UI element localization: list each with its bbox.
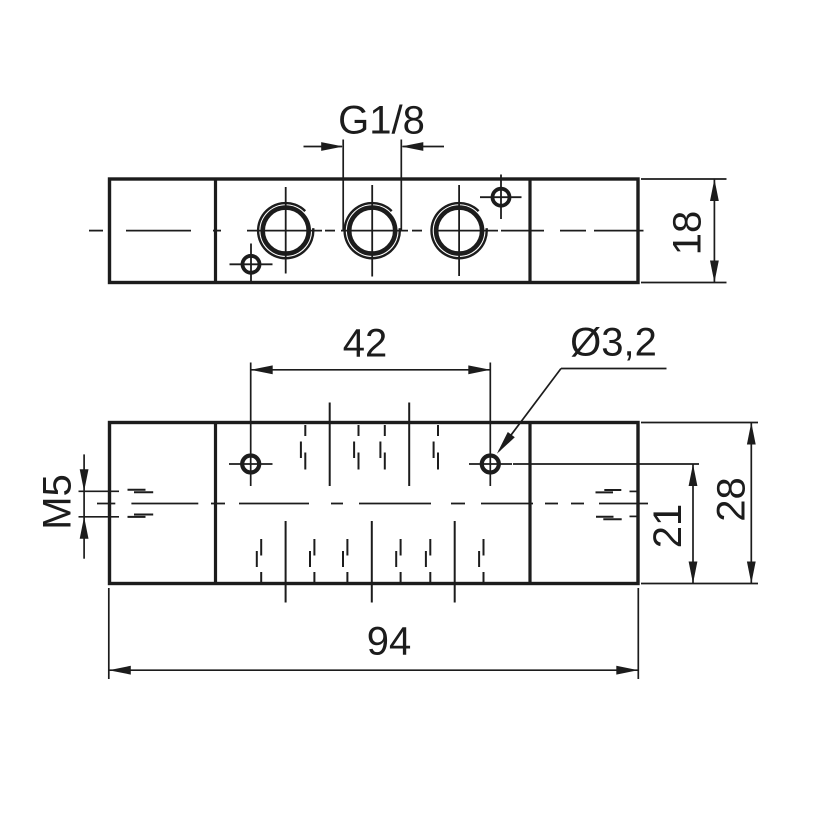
M5 port right thread dashes — [596, 490, 622, 519]
M5 port left thread dashes — [128, 490, 154, 517]
svg-text:42: 42 — [343, 322, 388, 366]
hidden hole group bottom 1 — [257, 539, 261, 583]
hidden hole group bottom 3 — [343, 539, 347, 583]
left section divider — [214, 179, 217, 283]
dimension 94 — [109, 588, 639, 679]
dimension 28 — [641, 423, 758, 584]
hidden hole group bottom 6 — [479, 539, 483, 583]
dimension 42 — [251, 369, 491, 371]
hidden hole group bottom 4 — [396, 539, 400, 583]
hidden hole group top 3 — [380, 425, 384, 470]
dimension G1/8 — [304, 140, 445, 232]
hidden hole group bottom 5 — [426, 539, 430, 583]
dimension 18 — [641, 179, 727, 283]
svg-text:18: 18 — [666, 211, 710, 256]
hidden hole group top 4 — [434, 425, 438, 470]
horizontal centerline top view — [89, 230, 644, 232]
port G1/8 hole U1 (left) — [258, 187, 313, 274]
port G1/8 hole U3 (right) — [432, 185, 487, 276]
svg-text:28: 28 — [710, 477, 754, 522]
mounting hole top view lower-left — [230, 244, 273, 283]
body outline front view — [110, 423, 639, 584]
hidden hole group top 1 — [301, 425, 305, 470]
bottom face port axis 1 — [285, 521, 287, 603]
svg-text:21: 21 — [646, 504, 690, 549]
M5 port right wall lines — [630, 491, 638, 516]
mounting hole front view left — [229, 363, 273, 487]
left section divider front view — [214, 423, 217, 584]
M5 port left wall lines — [79, 491, 120, 517]
svg-text:Ø3,2: Ø3,2 — [570, 321, 657, 365]
dimension M5 — [83, 454, 85, 558]
top face port axis A (left) — [329, 403, 331, 487]
hidden hole group top 2 — [354, 425, 358, 470]
dimension 21 — [513, 464, 699, 584]
svg-text:G1/8: G1/8 — [338, 99, 425, 143]
top face port axis B (right) — [408, 403, 410, 487]
right section divider front view — [528, 423, 531, 584]
svg-text:94: 94 — [367, 620, 412, 664]
leader diameter 3,2 — [499, 369, 667, 452]
port G1/8 hole U2 (middle) — [345, 185, 400, 277]
mounting hole front view right — [469, 363, 512, 487]
mounting hole top view upper-right — [480, 175, 522, 220]
right section divider — [528, 179, 531, 283]
svg-text:M5: M5 — [36, 474, 80, 530]
hidden hole group bottom 2 — [310, 539, 314, 583]
horizontal centerline front view — [97, 503, 648, 505]
body outline top view — [110, 179, 639, 283]
bottom face port axis 2 — [371, 521, 373, 603]
bottom face port axis 3 — [454, 521, 456, 603]
